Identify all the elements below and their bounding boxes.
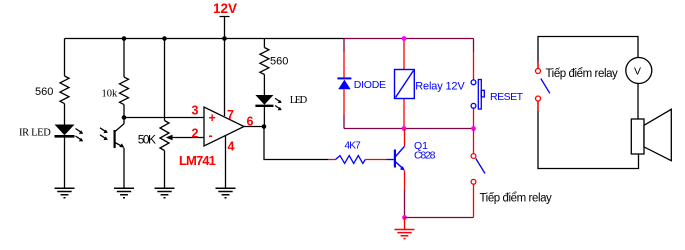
wire: 50K branch down (164, 39, 166, 121)
wire: 560/LED branch down from rail (263, 39, 265, 48)
svg-text:2: 2 (192, 127, 199, 141)
potentiometer 50K (160, 121, 169, 151)
potentiometer wiper arrow to op-amp pin 2 (166, 135, 204, 141)
wire: maroon bottom wire of relay box (344, 128, 474, 130)
wire: right vertical to RESET switch (473, 39, 475, 129)
ground (op-amp pin 4) (216, 188, 236, 198)
svg-text:RESET: RESET (490, 91, 524, 103)
wire: 10k to node (123, 105, 125, 118)
phototransistor Q (receiver) (100, 118, 124, 149)
wire: output junction down and right to 4K7 (264, 127, 328, 160)
wire: pin 7 from 12V rail (224, 39, 226, 117)
svg-text:4: 4 (228, 140, 235, 154)
svg-text:DIODE: DIODE (354, 79, 386, 91)
ground (red, transistor emitter) (395, 230, 415, 239)
node: 10k / phototransistor / pin3 junction (122, 115, 127, 120)
node: junction dot 10k branch (122, 36, 127, 41)
wire: pin 4 to ground (225, 136, 227, 188)
resistor 4K7 (base) (328, 156, 394, 164)
svg-text:7: 7 (227, 108, 234, 122)
relay coil box Relay 12V (395, 70, 415, 99)
svg-text:IR LED: IR LED (19, 128, 51, 139)
svg-text:V: V (634, 65, 641, 77)
svg-text:LED: LED (290, 95, 308, 106)
wire: red stubs at relay contact (right circuit) (537, 62, 539, 112)
wire: relay branch verticals (red) (403, 39, 405, 129)
switch RESET (push-button contacts) (471, 80, 484, 110)
svg-text:560: 560 (35, 86, 53, 98)
12V power terminal (220, 17, 230, 39)
resistor 560 (right) (260, 48, 269, 75)
wire: resistor to IR LED (64, 104, 66, 125)
svg-text:-: - (209, 129, 213, 143)
node: magenta junction emitter/ground (402, 215, 407, 220)
LED indicator symbol (255, 95, 281, 110)
wire: collector to relay bottom (red) (404, 129, 406, 147)
ground (50K) (155, 188, 175, 198)
wire: op-amp output pin 6 (244, 126, 264, 128)
node: magenta junction top (relay/collector) (402, 36, 407, 41)
svg-text:3: 3 (192, 104, 199, 118)
node: junction dot 50K branch (162, 36, 167, 41)
svg-text:Tiếp điểm relay: Tiếp điểm relay (480, 193, 553, 205)
svg-text:C828: C828 (414, 149, 436, 161)
node: junction dot 12V / pin7 (222, 36, 227, 41)
speaker (631, 109, 671, 160)
wire: maroon top wire of relay box (344, 38, 474, 40)
svg-text:50K: 50K (138, 132, 156, 146)
IR LED diode symbol (55, 125, 84, 142)
node: magenta junction bottom right (471, 126, 476, 131)
relay contact switch (right circuit) (536, 69, 550, 102)
diode DIODE (flyback) (337, 77, 351, 89)
op-amp pin/polarity labels (192, 104, 254, 154)
wire: node to op-amp pin 3 (124, 117, 204, 119)
op-amp U1 LM741 (204, 107, 244, 146)
svg-text:4K7: 4K7 (345, 140, 362, 151)
wire: emitter down (maroon) (404, 171, 406, 191)
svg-text:Tiếp điểm relay: Tiếp điểm relay (546, 68, 619, 80)
wire: left branch down to resistor (64, 39, 66, 77)
svg-text:10k: 10k (102, 89, 119, 100)
svg-text:+: + (209, 111, 216, 125)
wire: top supply rail (black) (65, 38, 345, 40)
wire: IR LED to ground (64, 138, 66, 188)
resistor 560 (left) (60, 76, 69, 104)
wire: resistor to LED (263, 75, 265, 96)
wire: emitter junction to ground (red) (404, 218, 406, 230)
wire: 50K to ground (164, 151, 166, 189)
resistor 10k (120, 77, 129, 105)
wire: maroon bottom link to contact (405, 217, 474, 219)
wire: right circuit loop (black) (538, 37, 639, 169)
node: output junction (262, 124, 267, 129)
voltmeter V (626, 58, 652, 84)
svg-text:560: 560 (270, 56, 288, 68)
node: magenta junction bottom (collector) (402, 126, 407, 131)
ground (phototransistor) (114, 188, 134, 198)
svg-text:Relay 12V: Relay 12V (415, 81, 465, 93)
wire: 10k branch down (123, 39, 125, 78)
wire: LED to output junction (263, 107, 265, 127)
wire: phototransistor emitter to ground (123, 148, 125, 188)
relay contact under box (Tiep diem relay) (471, 129, 485, 218)
svg-text:LM741: LM741 (179, 153, 216, 168)
transistor Q1 C828 (395, 146, 405, 170)
wire: left vertical (diode branch) (343, 39, 345, 129)
svg-text:12V: 12V (213, 1, 237, 16)
ground (IR LED branch) (55, 188, 75, 198)
